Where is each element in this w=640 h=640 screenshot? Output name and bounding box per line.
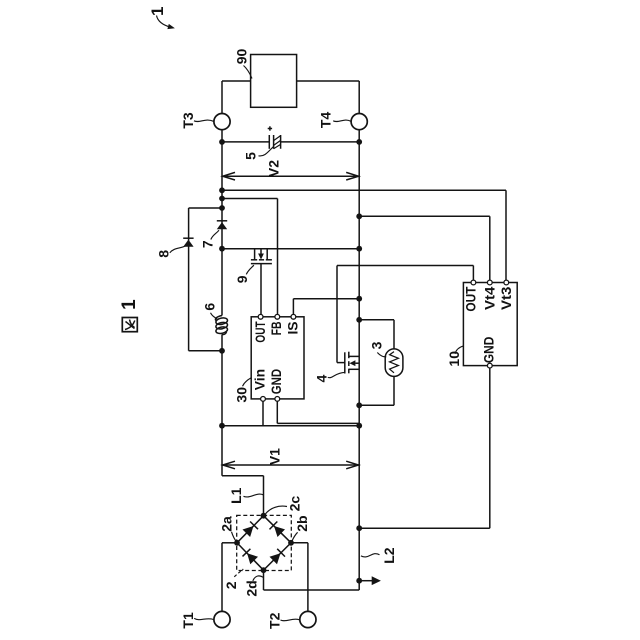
svg-text:2d: 2d: [243, 580, 259, 596]
svg-text:L1: L1: [228, 487, 244, 504]
svg-text:OUT: OUT: [464, 286, 479, 312]
svg-text:6: 6: [202, 303, 218, 311]
svg-text:OUT: OUT: [253, 321, 268, 343]
svg-text:2a: 2a: [218, 516, 234, 532]
svg-text:2: 2: [223, 581, 239, 589]
svg-text:T1: T1: [180, 612, 196, 629]
svg-text:4: 4: [313, 374, 329, 382]
svg-text:V2: V2: [266, 160, 282, 177]
svg-text:GND: GND: [269, 369, 284, 395]
svg-text:IS: IS: [285, 321, 300, 334]
svg-text:T2: T2: [266, 612, 282, 629]
svg-text:T4: T4: [318, 112, 334, 129]
svg-text:2c: 2c: [287, 496, 303, 512]
svg-text:V1: V1: [266, 448, 282, 465]
svg-text:T3: T3: [180, 112, 196, 129]
svg-text:8: 8: [155, 250, 171, 258]
svg-text:5: 5: [243, 152, 259, 160]
svg-text:FB: FB: [269, 321, 284, 335]
svg-text:10: 10: [446, 351, 462, 367]
svg-text:2b: 2b: [294, 515, 310, 531]
svg-text:Vt4: Vt4: [483, 286, 498, 310]
svg-text:3: 3: [369, 341, 385, 349]
svg-text:90: 90: [234, 49, 250, 65]
svg-text:1: 1: [148, 6, 167, 15]
svg-text:L2: L2: [381, 547, 397, 564]
svg-text:Vt3: Vt3: [499, 286, 514, 310]
svg-text:30: 30: [234, 387, 250, 403]
svg-text:1: 1: [119, 299, 140, 310]
svg-text:Vin: Vin: [253, 369, 268, 390]
svg-text:7: 7: [200, 240, 216, 248]
svg-text:9: 9: [234, 275, 250, 283]
svg-text:GND: GND: [482, 336, 497, 363]
